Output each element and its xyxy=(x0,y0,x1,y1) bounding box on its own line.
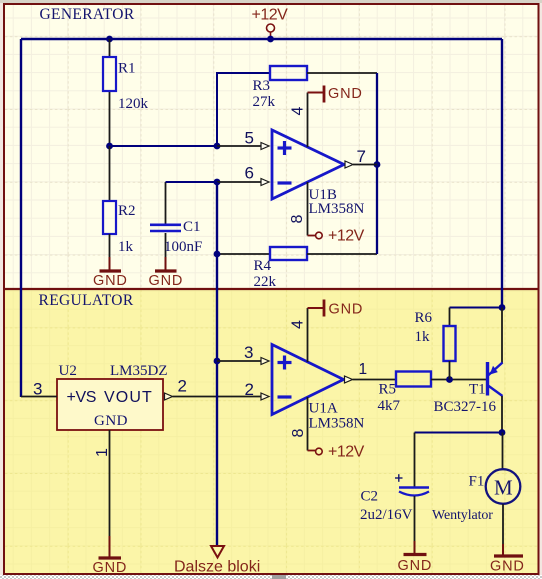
svg-text:8: 8 xyxy=(289,215,306,224)
svg-text:T1: T1 xyxy=(469,382,486,398)
svg-text:27k: 27k xyxy=(253,94,276,110)
junction node output xyxy=(374,161,381,168)
window chrome bottom dithered strip xyxy=(0,575,542,579)
ground GND under R2 xyxy=(93,257,128,289)
ground GND under motor xyxy=(490,544,525,575)
svg-text:GND: GND xyxy=(329,302,364,318)
svg-text:U2: U2 xyxy=(59,363,77,379)
svg-text:F1: F1 xyxy=(469,474,485,490)
svg-text:Wentylator: Wentylator xyxy=(432,508,493,523)
power port +12V U1B xyxy=(308,228,365,245)
svg-text:2u2/16V: 2u2/16V xyxy=(360,507,413,523)
svg-text:LM358N: LM358N xyxy=(309,201,365,217)
power port GND U1A xyxy=(308,300,364,318)
junction node pin5 xyxy=(214,143,221,150)
resistor R4 xyxy=(217,247,377,290)
svg-text:R1: R1 xyxy=(118,61,136,77)
svg-text:M: M xyxy=(494,476,513,500)
wire: top +12V rail xyxy=(21,38,502,40)
svg-text:4: 4 xyxy=(289,320,306,329)
U2 pin 3 wire xyxy=(21,380,57,399)
wire: left vertical net xyxy=(20,39,22,397)
wire: C1 to pin6 xyxy=(166,181,218,183)
svg-text:GND: GND xyxy=(93,560,128,576)
svg-text:VOUT: VOUT xyxy=(104,389,153,406)
op-amp U1A pin 8 xyxy=(290,397,308,451)
op-amp U1B xyxy=(272,130,365,217)
svg-text:R6: R6 xyxy=(415,310,433,326)
sensor U2 xyxy=(57,363,168,430)
junction node pin6 xyxy=(214,179,221,186)
junction node R5/R6 xyxy=(446,376,453,383)
generator section background xyxy=(4,4,538,289)
svg-text:1k: 1k xyxy=(118,239,134,255)
svg-text:R5: R5 xyxy=(379,382,397,398)
pin 7 output wire xyxy=(345,147,377,168)
svg-text:7: 7 xyxy=(357,147,366,166)
svg-text:22k: 22k xyxy=(254,274,277,290)
U2 pin 2 wire xyxy=(165,377,261,401)
svg-text:LM35DZ: LM35DZ xyxy=(110,363,168,379)
wire: pin5 black lead xyxy=(217,145,261,147)
svg-text:GENERATOR: GENERATOR xyxy=(40,6,135,23)
wire: pin6 black lead xyxy=(217,181,261,183)
ground GND under C1 xyxy=(149,257,184,289)
op-amp U1B pin 4 xyxy=(289,93,307,148)
svg-text:+12V: +12V xyxy=(328,228,365,245)
wire: divider to pin5 xyxy=(110,145,218,147)
svg-text:100nF: 100nF xyxy=(164,239,202,255)
transistor T1 xyxy=(434,362,503,415)
svg-text:6: 6 xyxy=(245,164,254,183)
svg-text:5: 5 xyxy=(245,129,254,148)
resistor R5 xyxy=(378,372,487,415)
svg-text:120k: 120k xyxy=(118,96,149,112)
left margin xyxy=(0,3,3,575)
junction node at R1 top xyxy=(106,36,113,43)
wire: right +12V vertical bus xyxy=(501,39,503,308)
svg-text:Dalsze bloki: Dalsze bloki xyxy=(174,559,260,576)
wire: collector to C2 xyxy=(415,432,503,434)
capacitor C2 xyxy=(360,433,429,542)
wire: emitter lead xyxy=(501,308,503,364)
svg-text:1: 1 xyxy=(94,448,111,457)
svg-text:+12V: +12V xyxy=(328,444,365,461)
svg-text:REGULATOR: REGULATOR xyxy=(39,292,134,309)
svg-text:LM358N: LM358N xyxy=(309,416,365,432)
pin 5 arrow xyxy=(261,143,269,150)
svg-text:4: 4 xyxy=(289,107,306,116)
regulator section background xyxy=(4,289,538,574)
svg-text:1k: 1k xyxy=(415,329,431,345)
svg-text:1: 1 xyxy=(359,361,368,378)
resistor R3 xyxy=(253,66,378,110)
ground GND under C2 xyxy=(398,541,433,574)
junction node at +12V stem xyxy=(267,36,274,43)
op-amp U1A pin 4 xyxy=(289,308,307,362)
U1A pin 2 arrow xyxy=(245,380,270,400)
op-amp U1B pin 8 xyxy=(289,182,308,236)
svg-text:2: 2 xyxy=(245,380,254,399)
resistor R2 xyxy=(103,146,136,257)
svg-text:BC327-16: BC327-16 xyxy=(434,399,497,415)
capacitor C1 xyxy=(150,182,202,257)
right margin xyxy=(539,3,542,575)
svg-text:GND: GND xyxy=(149,273,184,289)
svg-text:2: 2 xyxy=(178,377,187,396)
wire: output feedback vertical xyxy=(376,73,378,254)
svg-text:R4: R4 xyxy=(254,258,272,274)
svg-text:GND: GND xyxy=(93,273,128,289)
junction node divider xyxy=(106,143,113,150)
op-amp U1A xyxy=(272,345,365,432)
svg-text:GND: GND xyxy=(328,86,363,102)
junction node R4 left xyxy=(214,251,221,258)
wire: R6 top to +12V bus xyxy=(450,307,503,309)
svg-text:3: 3 xyxy=(244,343,253,362)
junction node collector xyxy=(499,429,506,436)
svg-text:R3: R3 xyxy=(253,78,271,94)
section divider line xyxy=(4,288,538,290)
power port GND U1B xyxy=(308,86,363,103)
wire: collector lead xyxy=(501,396,503,433)
svg-text:8: 8 xyxy=(290,429,307,438)
wire: mid vertical bus xyxy=(216,182,218,545)
svg-text:3: 3 xyxy=(33,380,42,399)
svg-text:U1A: U1A xyxy=(309,401,338,417)
off-sheet connector Dalsze bloki xyxy=(174,546,260,576)
svg-text:GND: GND xyxy=(94,413,128,429)
motor F1 xyxy=(432,433,520,545)
window chrome top strip xyxy=(0,0,542,3)
U2 pin 1 wire xyxy=(94,430,111,536)
svg-text:GND: GND xyxy=(490,559,525,575)
svg-text:+VS: +VS xyxy=(67,389,97,406)
power port +12V U1A xyxy=(308,444,365,461)
svg-text:+12V: +12V xyxy=(252,7,289,24)
svg-text:R2: R2 xyxy=(118,203,136,219)
ground GND under U2 xyxy=(93,536,128,576)
junction node U1A pin3 xyxy=(214,358,221,365)
wire: R3 left feedback vertical xyxy=(217,73,270,146)
junction node +12V bus / R6 xyxy=(499,304,506,311)
svg-text:GND: GND xyxy=(398,558,433,574)
resistor R1 xyxy=(103,39,149,146)
U1A pin 1 output xyxy=(345,361,397,383)
pin 6 arrow xyxy=(261,179,269,186)
svg-text:C2: C2 xyxy=(361,489,379,505)
resistor R6 xyxy=(415,308,456,380)
U1A pin 3 lead xyxy=(217,343,269,365)
svg-text:C1: C1 xyxy=(183,219,201,235)
svg-text:4k7: 4k7 xyxy=(378,398,401,414)
power port +12V (top) xyxy=(252,7,289,40)
